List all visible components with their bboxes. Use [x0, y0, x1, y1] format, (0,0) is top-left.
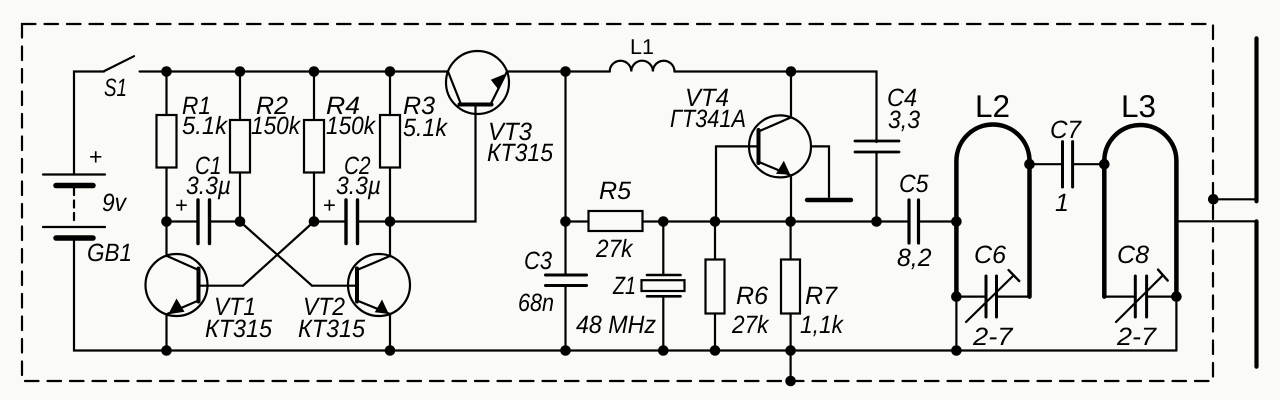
capacitor C5	[907, 200, 910, 243]
node C4 bottom / C5 left	[871, 216, 882, 227]
cross wire R2 node to VT2 base	[240, 222, 312, 286]
capacitor C2	[314, 220, 345, 222]
wire battery top to switch	[74, 72, 104, 175]
wire battery bottom to ground rail	[74, 241, 1176, 351]
svg-text:C3: C3	[524, 247, 552, 275]
top rail VT3 emitter to L1	[507, 70, 610, 72]
node ground rail / R6 bottom	[710, 345, 721, 356]
transistor VT3	[446, 51, 509, 114]
node R4 / C2 / VT1 base link	[309, 216, 320, 227]
svg-text:C6: C6	[974, 241, 1006, 269]
cross wire R4 node to VT1 base	[243, 222, 314, 286]
svg-text:R6: R6	[736, 282, 768, 310]
capacitor C4	[855, 140, 899, 143]
node +9V rail / R2 top	[235, 66, 246, 77]
transistor VT1	[146, 254, 244, 316]
svg-text:+: +	[89, 144, 102, 170]
resistor R7	[789, 222, 791, 260]
node +9V rail / R3 top	[385, 66, 396, 77]
ground rail riser to L3	[1175, 297, 1177, 351]
svg-text:2-7: 2-7	[1116, 323, 1157, 351]
svg-text:27k: 27k	[595, 235, 634, 263]
node to C3/R5 riser	[564, 72, 566, 222]
node ground rail / C3 bottom	[560, 345, 571, 356]
transistor VT2	[312, 254, 410, 316]
svg-text:3.3µ: 3.3µ	[186, 172, 231, 200]
node ground rail / VT2 emitter	[385, 345, 396, 356]
svg-text:3.3µ: 3.3µ	[336, 172, 381, 200]
svg-text:L2: L2	[975, 88, 1010, 124]
node R3 / C2 / VT2 collector / VT3 base	[385, 216, 396, 227]
VT4 collector wire	[790, 72, 792, 118]
svg-text:+: +	[175, 193, 188, 218]
svg-text:R5: R5	[599, 177, 631, 205]
resistor R5	[566, 220, 589, 222]
node R1 / C1 / VT1 collector	[161, 216, 172, 227]
svg-text:2-7: 2-7	[972, 323, 1014, 351]
node ground rail / Z1 bottom	[658, 345, 669, 356]
VT4 emitter wire	[790, 175, 792, 221]
node ground rail / VT1 emitter	[161, 345, 172, 356]
VT4 case lead	[811, 146, 829, 197]
resistor R6	[714, 222, 716, 260]
chassis ground bar	[807, 198, 851, 202]
node +9V rail / R4 top	[309, 66, 320, 77]
svg-text:L3: L3	[1121, 88, 1156, 124]
switch S1 blade	[104, 56, 134, 71]
svg-text:R7: R7	[805, 282, 838, 310]
node L3 right leg / C8 / ground riser	[1171, 291, 1182, 302]
node C7 tap on L3 left leg	[1099, 159, 1110, 170]
resistor R4	[313, 72, 315, 121]
svg-text:C7: C7	[1050, 116, 1082, 144]
antenna bottom element	[1254, 221, 1258, 366]
VT4 base wire	[715, 146, 717, 221]
inductor L2	[956, 125, 1029, 297]
svg-text:1,1k: 1,1k	[800, 311, 844, 339]
capacitor C6	[956, 296, 984, 298]
node C7 tap on L2 right leg	[1024, 159, 1035, 170]
node ground rail to shield border	[785, 376, 796, 387]
capacitor C8	[1104, 296, 1134, 298]
resistor R1	[165, 72, 167, 116]
top +9V rail	[167, 70, 449, 72]
transistor VT4	[716, 115, 811, 177]
svg-text:C5: C5	[899, 170, 929, 198]
inductor L3	[1104, 125, 1176, 297]
svg-text:150k: 150k	[326, 112, 376, 140]
L2 ground wire	[955, 297, 957, 351]
svg-text:Z1: Z1	[612, 272, 636, 300]
resistor R2	[239, 72, 241, 121]
crystal Z1	[662, 222, 664, 276]
node antenna upper feed on shield border	[1208, 194, 1219, 205]
node VT4 base / R6 top	[710, 216, 721, 227]
svg-text:C8: C8	[1117, 241, 1149, 269]
C6 trimmer arrow	[966, 276, 1014, 323]
svg-text:27k: 27k	[731, 311, 770, 339]
svg-text:S1: S1	[104, 74, 127, 102]
inductor L1	[610, 61, 675, 72]
VT1 emitter wire	[165, 314, 167, 350]
svg-text:КТ315: КТ315	[298, 315, 365, 343]
antenna top element	[1254, 38, 1258, 201]
battery GB1	[43, 175, 105, 239]
ground stub to border	[789, 351, 791, 382]
node R5 right / Z1 top	[658, 216, 669, 227]
antenna feed bottom	[1176, 220, 1256, 222]
svg-text:5.1k: 5.1k	[403, 114, 448, 142]
node L1 / VT4 collector / C4	[786, 66, 797, 77]
svg-text:1: 1	[1055, 189, 1069, 217]
resistor R3	[389, 72, 391, 116]
VT2 emitter wire	[389, 314, 391, 351]
svg-text:КТ315: КТ315	[205, 315, 272, 343]
capacitor C7	[1030, 163, 1062, 165]
svg-text:9v: 9v	[102, 189, 127, 217]
wire switch to node	[140, 70, 167, 72]
node C3 / R5 left	[560, 216, 571, 227]
wire R3 node to VT3 base	[390, 106, 476, 222]
VT1 collector wire	[165, 222, 167, 256]
node +9V rail / R1 top	[161, 66, 172, 77]
node L2 left leg / C6 / ground wire	[951, 291, 962, 302]
node ground rail / L2 ground wire	[951, 345, 962, 356]
svg-text:150k: 150k	[251, 112, 301, 140]
node R2 / C1 / VT2 base link	[235, 216, 246, 227]
node VT4 emitter / R7 top	[785, 216, 796, 227]
svg-text:68n: 68n	[518, 289, 554, 317]
wire L1 to C4 corner	[675, 72, 877, 143]
svg-text:L1: L1	[630, 35, 654, 59]
svg-text:48 MHz: 48 MHz	[576, 311, 656, 339]
VT2 collector wire	[389, 222, 391, 257]
svg-text:КТ315: КТ315	[487, 139, 553, 167]
svg-text:ГТ341А: ГТ341А	[670, 105, 746, 133]
svg-text:3,3: 3,3	[888, 106, 920, 134]
svg-text:5.1k: 5.1k	[182, 112, 228, 140]
node C5 tap on L2 left leg	[951, 216, 962, 227]
svg-text:8,2: 8,2	[897, 244, 932, 272]
C8 trimmer arrow	[1116, 276, 1163, 322]
antenna feed top from border	[1213, 198, 1256, 200]
svg-text:GB1: GB1	[87, 239, 132, 267]
node ground rail / R7 bottom	[785, 345, 796, 356]
capacitor C1	[167, 220, 197, 222]
svg-text:+: +	[323, 193, 336, 218]
capacitor C3	[564, 222, 566, 274]
middle bus	[663, 220, 908, 222]
node VT3 emitter / L1 / C3 riser	[560, 66, 571, 77]
